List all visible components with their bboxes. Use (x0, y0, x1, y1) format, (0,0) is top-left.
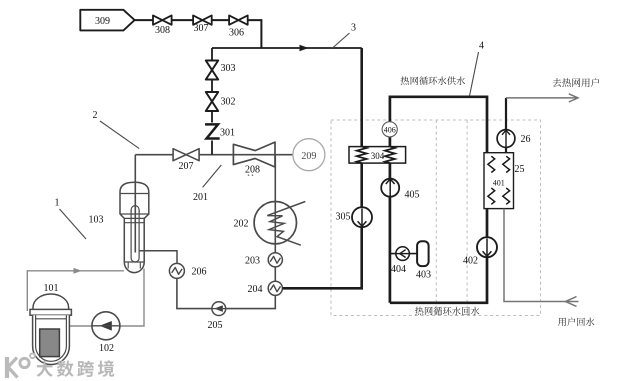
meter 404 (396, 247, 410, 261)
pump 102 (92, 312, 120, 340)
svg-text:208: 208 (245, 165, 260, 176)
valve 208 (233, 142, 275, 167)
svg-text:201: 201 (193, 192, 208, 203)
svg-text:305: 305 (336, 212, 351, 223)
valve 302 (206, 92, 218, 111)
leader line for 3 (333, 33, 350, 48)
wire extraction header (212, 47, 362, 49)
svg-text:209: 209 (301, 151, 316, 162)
wire extraction steam down to 304 and condensate to 204 (283, 48, 362, 288)
arrowhead user return (566, 297, 577, 307)
heat exchanger 203 (268, 253, 282, 267)
svg-text:401: 401 (493, 179, 505, 188)
vessel 103 dome joint line (120, 193, 149, 195)
valve 301 (Z quick-closing) (206, 124, 218, 138)
svg-text:3: 3 (351, 23, 356, 34)
pump 26 arrow (505, 131, 507, 147)
text re-wang return (415, 307, 424, 316)
pump 305 arrow (361, 209, 363, 227)
svg-text:309: 309 (95, 16, 110, 27)
svg-text:301: 301 (220, 128, 235, 139)
sine symbol in 206 (172, 268, 182, 275)
leader line for 201 (203, 165, 222, 187)
wire 103 outlet to 206 (139, 251, 177, 264)
svg-text:203: 203 (245, 256, 260, 267)
svg-text:26: 26 (521, 134, 531, 145)
spring element in 401 upper left (488, 156, 495, 172)
vessel 101 outer shell (33, 315, 70, 364)
valve 301 mask (206, 123, 220, 141)
svg-text:4: 4 (479, 41, 484, 52)
svg-text:302: 302 (221, 97, 236, 108)
svg-text:103: 103 (89, 215, 104, 226)
vessel 103 neck ring lower (124, 222, 144, 224)
heater 202 zigzag element (267, 202, 305, 246)
wire riser from 208 down to 204 (274, 155, 276, 296)
heat exchanger 401 box (484, 153, 514, 209)
vessel 101 flange (30, 309, 71, 315)
pump 402 (477, 237, 497, 257)
flag tank 309 (80, 10, 134, 31)
tank 403 (417, 241, 429, 266)
instrument 406 (382, 122, 397, 137)
dashed divider line left (435, 120, 437, 316)
vessel 103 coil right leg (138, 210, 140, 258)
wire user return (504, 209, 579, 302)
pump 405 (381, 179, 399, 197)
pump 26 (497, 130, 515, 148)
svg-text:406: 406 (384, 125, 396, 134)
instrument 209 (293, 139, 325, 171)
svg-text:2: 2 (93, 110, 98, 121)
wire supply riser 405/406 and return run to 402 (390, 97, 487, 303)
valve 308 (153, 15, 172, 24)
svg-text:403: 403 (416, 270, 431, 281)
svg-text:306: 306 (229, 28, 244, 39)
spring element in 401 lower right (503, 188, 510, 204)
leader line for 1 (60, 209, 87, 239)
valve 307 (193, 15, 212, 24)
valve 306 (229, 15, 248, 24)
leader line for 2 (100, 121, 139, 149)
heater 202 (254, 202, 296, 244)
pump 305 (352, 207, 372, 227)
reactor core block in 101 (40, 329, 60, 357)
svg-text:308: 308 (155, 25, 170, 36)
vessel 103 coil U-bend (131, 258, 139, 262)
pump 102 impeller arrow (100, 321, 112, 331)
wire 309 to corner down to header (135, 20, 262, 48)
flow arrow on reactor outlet wire (74, 268, 82, 274)
svg-text:205: 205 (208, 320, 223, 331)
text to heat users (553, 78, 562, 87)
vessel 103 body outline (120, 182, 149, 272)
vessel 103 shoulder line (120, 213, 149, 215)
svg-text:1: 1 (55, 198, 60, 209)
wire reactor outlet (101 to 103) (27, 271, 124, 311)
vessel 103 coil left leg (130, 210, 132, 258)
svg-text:206: 206 (192, 267, 207, 278)
dashed enclosure box (heat exchanger unit) (331, 120, 541, 316)
wire down into vessel 103 (134, 155, 136, 253)
leader line for 4 (470, 52, 479, 96)
sine symbol in 203 (270, 256, 280, 263)
svg-text:102: 102 (99, 343, 114, 354)
wire 404 branch (390, 253, 417, 255)
arrowhead to heat users (569, 94, 578, 102)
valve 303 (206, 61, 218, 80)
wire reactor return (101 through pump 102 to 103) (69, 269, 144, 327)
wire main steam header (valve 207 line) (135, 154, 293, 156)
meter 404 line and arrow (396, 253, 410, 255)
vessel 103 bottom cap chord (124, 261, 144, 263)
svg-text:405: 405 (405, 190, 420, 201)
sine symbol in 204 (270, 285, 280, 292)
heat exchanger 206 (169, 263, 184, 278)
vessel 103 cap tick right (139, 262, 141, 269)
dashed divider line right (466, 120, 468, 316)
svg-text:25: 25 (515, 164, 525, 175)
watermark logo and text (7, 353, 114, 378)
svg-text:307: 307 (194, 23, 209, 34)
valve 207 (173, 149, 199, 161)
flow arrow on extraction header (300, 45, 309, 52)
svg-text:204: 204 (248, 284, 263, 295)
svg-text:101: 101 (44, 283, 59, 294)
wire 206 down and across through pump 205 (177, 278, 275, 308)
heat exchanger 304 box (349, 147, 406, 164)
pump 205 (212, 302, 226, 316)
spring element in 304 right (385, 147, 395, 164)
svg-text:304: 304 (371, 151, 385, 161)
pump 402 arrow (486, 239, 488, 257)
spring element in 401 lower left (488, 188, 495, 204)
pump 405 arrow (389, 180, 391, 197)
wire valve string down (303/302/301) (211, 48, 213, 155)
svg-text:202: 202 (234, 219, 249, 230)
vessel 101 dome (33, 294, 69, 309)
spring element in 304 left (357, 147, 367, 164)
wire supply into 401 through pump 26 (505, 98, 507, 153)
svg-text:404: 404 (391, 264, 406, 275)
text re-wang supply (401, 76, 410, 85)
heat exchanger 204 (268, 281, 282, 295)
vessel 103 neck ring upper (124, 217, 144, 219)
pump 205 arrow (214, 305, 223, 312)
svg-text:207: 207 (179, 161, 194, 172)
vessel 101 inner top line (36, 318, 67, 320)
text user return (558, 318, 566, 326)
vessel 103 coil top arch (131, 206, 139, 212)
svg-text:303: 303 (221, 63, 236, 74)
vessel 103 cap tick left (127, 262, 129, 269)
vessel 101 inner shell (36, 315, 67, 361)
spring element in 401 upper right (503, 156, 510, 172)
wire to heat users (506, 97, 578, 99)
marks under 208 (248, 174, 250, 176)
svg-text:402: 402 (463, 256, 478, 267)
